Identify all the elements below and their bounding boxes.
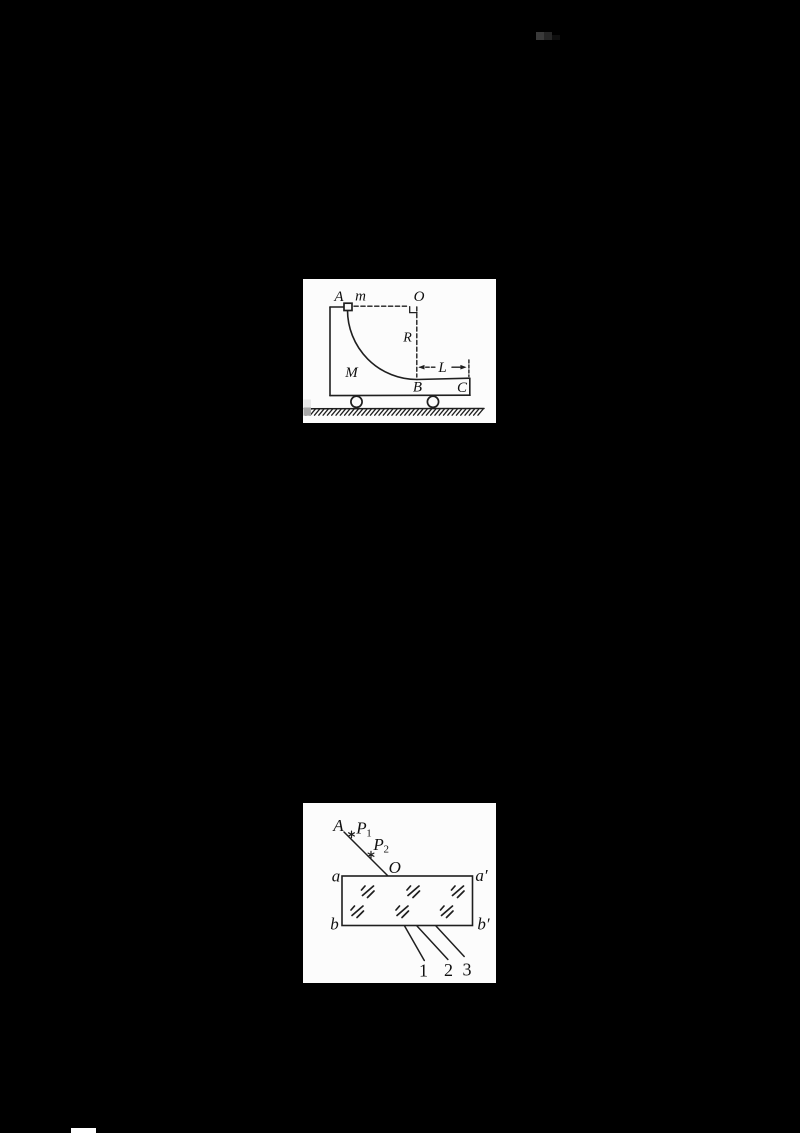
svg-text:2: 2 xyxy=(444,960,453,980)
svg-text:P: P xyxy=(372,835,383,854)
svg-text:m: m xyxy=(355,289,366,305)
svg-text:M: M xyxy=(344,365,359,381)
svg-text:2: 2 xyxy=(383,844,389,856)
svg-text:L: L xyxy=(437,360,446,376)
svg-text:O: O xyxy=(414,289,425,305)
svg-text:B: B xyxy=(413,379,422,395)
svg-text:A: A xyxy=(333,289,344,305)
svg-text:1: 1 xyxy=(366,828,372,840)
svg-text:A: A xyxy=(332,816,344,835)
svg-text:3: 3 xyxy=(463,960,472,980)
svg-text:a: a xyxy=(332,867,341,886)
svg-text:1: 1 xyxy=(419,961,428,981)
svg-text:a′: a′ xyxy=(475,866,488,885)
svg-text:P: P xyxy=(355,819,366,838)
svg-text:b: b xyxy=(330,915,339,934)
svg-text:R: R xyxy=(402,331,412,346)
svg-text:b′: b′ xyxy=(477,915,490,934)
svg-text:C: C xyxy=(457,380,468,396)
svg-text:O: O xyxy=(389,858,401,877)
